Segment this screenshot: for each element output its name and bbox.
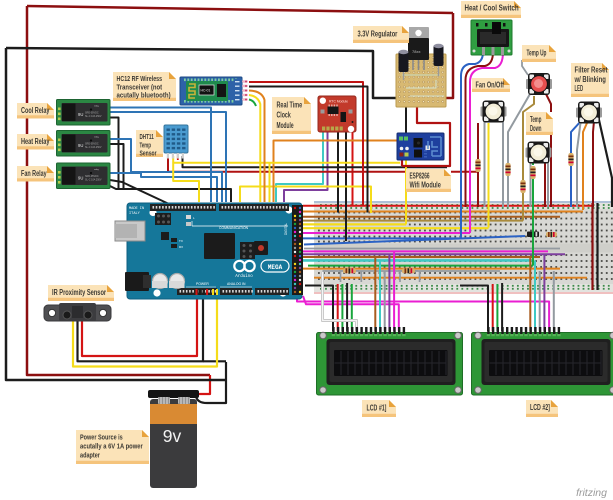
svg-text:TX: TX [179,239,183,243]
svg-text:SL-C 10A 250V: SL-C 10A 250V [85,115,102,118]
svg-text:POWER: POWER [196,282,209,286]
svg-text:Power Source is: Power Source is [80,432,123,441]
svg-text:Arduino: Arduino [235,274,253,279]
svg-text:ANALOG IN: ANALOG IN [227,282,246,286]
svg-text:Heat Relay: Heat Relay [21,137,50,146]
svg-text:adapter: adapter [80,450,100,459]
svg-text:MEGA: MEGA [268,264,283,271]
svg-text:RX: RX [179,245,183,249]
svg-text:Filter Reset: Filter Reset [575,65,608,74]
svg-text:w/ Blinking: w/ Blinking [574,75,606,84]
svg-text:Fan Relay: Fan Relay [21,169,47,178]
svg-text:Wifi Module: Wifi Module [410,181,442,190]
svg-text:Fan On/Off: Fan On/Off [476,80,505,89]
svg-text:Clock: Clock [277,111,292,120]
svg-text:COMMUNICATION: COMMUNICATION [219,226,249,230]
svg-text:78xx: 78xx [412,49,420,54]
svg-text:SL-C 10A 250V: SL-C 10A 250V [85,146,102,149]
svg-text:acutally bluetooth): acutally bluetooth) [117,91,172,100]
svg-text:Temp: Temp [530,115,541,124]
svg-text:HC-01: HC-01 [201,89,211,93]
svg-text:Down: Down [530,124,541,133]
svg-text:DIGITAL: DIGITAL [284,223,288,235]
svg-text:Heat / Cool Switch: Heat / Cool Switch [465,3,519,12]
svg-text:LCD #1]: LCD #1] [367,403,387,412]
svg-text:fritzing: fritzing [576,487,607,499]
svg-text:Temp Up: Temp Up [527,48,547,57]
svg-text:ESP8266: ESP8266 [410,171,430,180]
svg-text:LED: LED [575,84,584,93]
svg-text:3.3V Regulator: 3.3V Regulator [358,29,398,38]
svg-text:RTC Module: RTC Module [329,100,348,104]
svg-text:MADE IN: MADE IN [129,207,144,211]
svg-text:SL-C 10A 250V: SL-C 10A 250V [85,179,102,182]
svg-text:Real Time: Real Time [277,100,303,109]
svg-text:9U: 9U [78,176,83,181]
svg-text:9U: 9U [78,112,83,117]
svg-text:ITALY: ITALY [129,212,141,216]
svg-text:Cool Relay: Cool Relay [21,106,50,115]
svg-text:9U: 9U [78,143,83,148]
svg-text:Sensor: Sensor [140,149,157,158]
svg-text:9v: 9v [163,426,182,446]
svg-text:LCD #2]: LCD #2] [530,403,550,412]
svg-text:Module: Module [277,121,294,130]
svg-text:acutally a 6V 1A power: acutally a 6V 1A power [80,441,143,450]
svg-text:IR Proximity Sensor: IR Proximity Sensor [52,288,106,297]
